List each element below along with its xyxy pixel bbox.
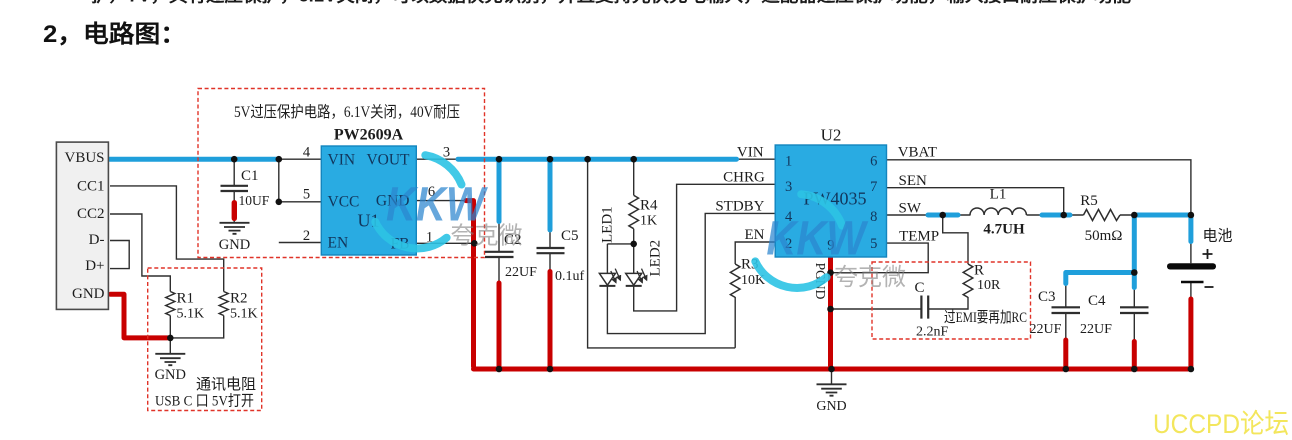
thin wires group	[108, 159, 1191, 384]
svg-text:4: 4	[303, 145, 311, 161]
wire SEN	[887, 188, 1064, 215]
wire C5 red leg	[548, 272, 553, 367]
dashed box EMI RC	[872, 262, 1031, 339]
svg-text:C3: C3	[1038, 289, 1056, 305]
svg-text:C5: C5	[561, 228, 579, 244]
U1 pin numbers	[303, 145, 450, 246]
svg-text:10UF: 10UF	[239, 193, 270, 208]
wire LED2 cathode to CHRG	[634, 184, 776, 311]
capacitor C1 red polarized mark	[232, 200, 237, 221]
inductor L1	[970, 208, 1026, 215]
U2 left pin labels	[715, 145, 765, 244]
svg-text:CHRG: CHRG	[723, 170, 765, 186]
wire U1 GND pin6	[416, 200, 464, 202]
wire pin9 to EMI C	[831, 308, 921, 310]
wire battery red leg	[1188, 299, 1193, 366]
node C3 C4 blue tee	[1131, 269, 1138, 276]
connector J1 body	[56, 142, 108, 309]
wire GND3 stem	[831, 369, 833, 384]
wire C1 leads	[233, 159, 235, 222]
svg-text:CC1: CC1	[77, 179, 105, 195]
svg-text:R: R	[974, 263, 984, 279]
svg-text:VIN: VIN	[737, 145, 764, 161]
resistor R2	[219, 292, 228, 316]
wire R3 leads	[735, 242, 775, 348]
svg-text:5.1K: 5.1K	[230, 307, 258, 322]
wire U1 GND red down	[466, 201, 474, 367]
wire C4 blue stub	[1132, 273, 1137, 288]
node R4 bottom LED anodes	[630, 241, 637, 248]
capacitor C2 plates	[485, 252, 514, 257]
node C5 on VOUT bus	[547, 156, 554, 163]
wire C2 blue drop	[497, 162, 502, 222]
svg-text:R4: R4	[640, 198, 658, 214]
wire C2 red leg	[497, 283, 502, 366]
wire R 10R bottom	[929, 297, 968, 309]
svg-text:22UF: 22UF	[1080, 322, 1112, 337]
svg-text:LED1: LED1	[600, 206, 616, 243]
capacitor C4 plates	[1120, 307, 1149, 313]
wire R5 to battery underlay	[1120, 214, 1191, 216]
node pin9 on ground bus	[828, 366, 835, 373]
wire SW node to R 10R	[943, 215, 968, 264]
U2 pin numbers	[785, 154, 877, 254]
svg-text:C1: C1	[241, 168, 259, 184]
node R3 net on VOUT bus	[584, 156, 591, 163]
svg-text:STDBY: STDBY	[715, 199, 764, 215]
svg-text:D-: D-	[89, 232, 105, 248]
wire C5 blue drop	[548, 162, 553, 230]
node SEN L1 R5 junction	[1060, 212, 1067, 219]
node C5 on ground bus	[547, 366, 554, 373]
svg-text:SEN: SEN	[899, 173, 928, 189]
svg-text:8: 8	[870, 209, 877, 225]
thick red ground wires	[111, 201, 1191, 369]
node R5 out junction	[1131, 212, 1138, 219]
capacitor C1 plates	[221, 186, 249, 191]
wire C3 red leg	[1063, 340, 1068, 366]
svg-text:VBAT: VBAT	[898, 145, 937, 161]
svg-text:2.2nF: 2.2nF	[916, 325, 949, 340]
svg-text:1: 1	[785, 154, 792, 170]
wire U2 pin9 red leg	[828, 257, 833, 367]
resistor R3	[730, 264, 740, 297]
svg-text:GND: GND	[219, 237, 250, 253]
LED2 symbol	[626, 269, 647, 286]
svg-text:5V过压保护电路，6.1V关闭，40V耐压: 5V过压保护电路，6.1V关闭，40V耐压	[234, 103, 460, 121]
svg-text:R5: R5	[1080, 193, 1098, 209]
LED1 symbol	[599, 269, 620, 286]
svg-text:C4: C4	[1088, 293, 1106, 309]
wire VBUS to R3 bottom	[588, 159, 736, 348]
node C3 on ground bus	[1063, 366, 1070, 373]
connector pin labels	[64, 150, 104, 302]
wire LED2 anode	[633, 244, 635, 274]
svg-text:2: 2	[303, 228, 310, 244]
node SW R junction	[939, 212, 946, 219]
capacitor C5 plates	[537, 248, 565, 253]
wire TEMP loop to pin9	[831, 243, 929, 273]
capacitor C3 plates	[1052, 307, 1081, 313]
svg-text:5: 5	[870, 236, 877, 252]
svg-text:GND: GND	[72, 286, 105, 302]
svg-text:过EMI要再加RC: 过EMI要再加RC	[944, 309, 1027, 326]
svg-text:UCCPD论坛: UCCPD论坛	[1153, 409, 1289, 439]
wire C3 leads	[1065, 284, 1067, 339]
svg-text:EN: EN	[328, 235, 349, 252]
svg-text:50mΩ: 50mΩ	[1085, 228, 1123, 244]
resistor R4	[629, 195, 639, 228]
wire VBUS blue	[110, 157, 279, 162]
node R4 on VOUT bus	[630, 156, 637, 163]
svg-text:7: 7	[870, 179, 877, 195]
wire LED1 anode	[607, 244, 633, 274]
U1 pin labels	[328, 152, 411, 253]
node battery on ground bus	[1188, 366, 1195, 373]
svg-text:VIN: VIN	[328, 152, 356, 169]
wire VOUT bus underlay	[416, 158, 775, 160]
resistor R5	[1084, 210, 1121, 221]
wire vertical VBUS to VCC	[279, 159, 322, 202]
node VCC corner	[276, 199, 283, 206]
wire C4 red leg	[1132, 342, 1137, 367]
svg-text:0.1uf: 0.1uf	[555, 269, 585, 284]
node FB on red wire	[471, 240, 478, 247]
wire red ground bus	[474, 367, 1191, 372]
svg-text:L1: L1	[990, 187, 1007, 203]
op-amp U1 body	[321, 146, 416, 255]
node C1 on VBUS	[231, 156, 238, 163]
wire R5 out blue to battery	[1134, 213, 1189, 218]
node TEMP on pin9 wire	[827, 269, 834, 276]
wire R1 bottom	[169, 316, 171, 354]
thick blue power wires	[110, 159, 1191, 287]
wire R4 leads	[633, 159, 635, 244]
svg-text:KKW: KKW	[766, 213, 868, 266]
wire connector GND red	[111, 294, 168, 338]
battery symbol	[1167, 263, 1216, 269]
svg-text:PW2609A: PW2609A	[334, 127, 404, 144]
resistor R1	[166, 292, 175, 316]
wire C3 C4 blue feed	[1066, 217, 1135, 284]
svg-text:EN: EN	[745, 227, 765, 243]
svg-text:USB C 口 5V打开: USB C 口 5V打开	[155, 393, 254, 410]
U2 right pin labels	[898, 145, 939, 245]
dashed box comm resistors	[148, 268, 262, 411]
wire LED1 cathode to STDBY	[607, 213, 775, 333]
svg-text:TEMP: TEMP	[899, 228, 939, 244]
wire C2 leads	[498, 159, 500, 282]
wire SW row underlay	[887, 214, 971, 216]
wire VBUS bus underlay	[108, 158, 321, 160]
node battery top junction	[1188, 212, 1195, 219]
wire battery leads	[1190, 242, 1192, 298]
node C4 on ground bus	[1131, 366, 1138, 373]
svg-text:GND: GND	[816, 399, 846, 414]
transistor U2 body	[775, 145, 886, 257]
svg-text:6: 6	[870, 154, 877, 170]
svg-text:C: C	[915, 280, 925, 296]
svg-text:R2: R2	[230, 291, 248, 307]
ground under R1 R2	[155, 354, 185, 365]
svg-text:CC2: CC2	[77, 206, 105, 222]
wire U1 FB pin1	[416, 242, 475, 244]
svg-text:4.7UH: 4.7UH	[983, 222, 1025, 238]
svg-text:护）7V，具有过压保护，6.1V关闭，可以数据快充识别，并且: 护）7V，具有过压保护，6.1V关闭，可以数据快充识别，并且支持光伏充电输入，适…	[91, 0, 1132, 6]
svg-text:GND: GND	[155, 367, 186, 383]
svg-text:VBUS: VBUS	[64, 150, 104, 166]
watermark 1 swoosh arcs	[375, 155, 461, 248]
svg-text:22UF: 22UF	[1030, 322, 1062, 337]
wire CC1 to R2	[110, 186, 224, 292]
wire VBAT	[887, 160, 1191, 215]
node C2 on ground bus	[496, 366, 503, 373]
node VBUS corner	[276, 156, 283, 163]
svg-text:U2: U2	[821, 126, 842, 145]
capacitor C 2.2nF plates	[921, 296, 928, 319]
wire VOUT blue bus	[458, 157, 737, 162]
node EMI C on pin9 wire	[827, 306, 834, 313]
node C2 on VOUT bus	[496, 156, 503, 163]
resistor R 10R	[963, 264, 973, 297]
svg-text:R1: R1	[177, 291, 195, 307]
dashed box U1 OVP	[198, 89, 485, 258]
wire L1 out blue segment	[1042, 213, 1070, 218]
node R1 R2 GND junction	[167, 335, 174, 342]
svg-text:5.1K: 5.1K	[177, 307, 205, 322]
wire EN stub U1	[279, 242, 322, 244]
svg-text:2，电路图：: 2，电路图：	[43, 20, 186, 48]
wire D- D+ short loop	[110, 241, 129, 269]
svg-text:D+: D+	[85, 258, 104, 274]
svg-text:22UF: 22UF	[505, 265, 537, 280]
ground under U2 pin9	[817, 384, 847, 395]
wire CC2 to R1	[110, 214, 170, 292]
svg-text:VCC: VCC	[328, 194, 360, 211]
ground under C1	[220, 223, 250, 234]
watermark 2 swoosh arcs	[755, 194, 842, 288]
wire SW blue segment	[928, 213, 958, 218]
svg-text:3: 3	[785, 179, 792, 195]
svg-text:1K: 1K	[640, 214, 657, 229]
svg-text:夸克微: 夸克微	[451, 223, 523, 250]
svg-text:SW: SW	[899, 200, 922, 216]
wire R2 bottom to junction	[170, 316, 223, 338]
svg-text:5: 5	[303, 187, 310, 203]
wire C4 leads	[1133, 288, 1135, 340]
svg-text:电池: 电池	[1203, 228, 1233, 245]
wire battery blue drop	[1188, 217, 1193, 242]
svg-text:通讯电阻: 通讯电阻	[196, 376, 256, 393]
wire L1 to R5 underlay	[1027, 214, 1084, 216]
wire C5 leads	[549, 159, 551, 270]
svg-text:VOUT: VOUT	[366, 152, 410, 169]
svg-text:夸克微: 夸克微	[834, 264, 906, 291]
svg-text:10R: 10R	[977, 278, 1001, 293]
svg-text:LED2: LED2	[648, 240, 664, 277]
